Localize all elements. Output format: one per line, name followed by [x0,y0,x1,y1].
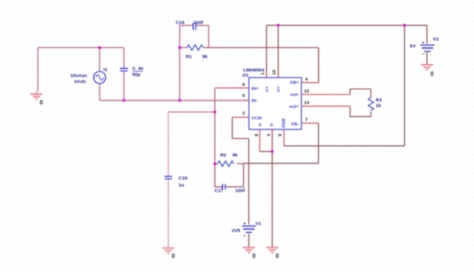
junction R1 left top [178,46,181,49]
op-amp U1 LMH6554 [242,67,309,136]
svg-text:IN+: IN+ [251,86,259,91]
svg-text:out-: out- [290,92,299,97]
junction source top [98,46,101,49]
voltage source V2 5V [410,37,439,54]
voltage source V1 2V5 [232,221,262,236]
ground 0 below V1 [243,248,256,260]
wire VCM stair [232,117,249,138]
wire source top lead [99,48,101,72]
svg-text:V1: V1 [255,221,261,227]
junction R2 left [213,162,216,165]
wire R1 right to FB+ drop [203,47,318,49]
wire pin2 VCM [232,116,249,118]
svg-text:7: 7 [305,117,308,123]
wire input rail to IN- [100,99,249,101]
svg-text:9: 9 [278,133,284,136]
wire R3 bottom bracket [350,106,371,116]
svg-text:V2: V2 [433,37,439,43]
svg-text:V+: V+ [265,86,270,92]
wire pin1 supply vertical [266,25,268,77]
junction R1 rail [178,99,181,102]
ground 0 left [30,92,43,107]
capacitor C_IN 50p [120,66,144,78]
junction C_IN bottom [122,99,125,102]
pin 5 stub [244,99,249,101]
svg-text:VCM: VCM [251,115,261,120]
svg-text:5: 5 [242,93,245,99]
wire left ground branch vertical [37,48,39,92]
svg-text:V-: V- [269,122,274,127]
capacitor C16 100f [176,20,209,48]
capacitor C17 100f [214,164,245,194]
svg-text:FB-: FB- [291,121,299,126]
wire pin4 FB+ [301,82,318,84]
svg-text:8: 8 [254,133,260,136]
wire pin7 FB- [301,122,318,124]
resistor R1 9k [180,45,208,60]
wire source bottom lead [99,84,101,101]
svg-text:10uAac: 10uAac [70,73,87,79]
ground 0 below pin3 [266,248,279,261]
svg-text:100f: 100f [193,20,203,26]
wire C19 top lead [167,112,169,175]
svg-text:R1: R1 [186,54,192,60]
svg-text:C16: C16 [176,20,185,26]
junction C19 branch [213,111,216,114]
svg-text:1u: 1u [179,182,185,188]
svg-text:R2: R2 [220,153,226,159]
svg-text:1k: 1k [376,103,382,109]
wire R2 right to FB- loop [244,162,319,164]
junction pin10 rail [277,24,280,27]
svg-text:12: 12 [304,89,310,95]
wire V2 top lead [426,25,428,44]
svg-text:100f: 100f [235,188,245,194]
junction pin8 pin3 [271,150,274,153]
svg-text:U1: U1 [242,73,248,79]
wire C19 branch horizontal [168,111,215,113]
current source I1 [70,67,108,85]
wire pin3 ground vertical [271,129,273,246]
svg-text:C_IN: C_IN [132,66,143,72]
svg-text:I1: I1 [103,67,107,73]
wire V+ rail top [267,24,428,26]
svg-text:6: 6 [242,82,245,88]
svg-text:V-: V- [257,122,262,127]
wire pin6 IN+ [215,87,249,89]
svg-text:4: 4 [305,77,308,83]
svg-text:3: 3 [266,133,272,136]
svg-text:9k: 9k [232,153,238,159]
wire pin8 stub [259,129,261,151]
svg-text:13: 13 [304,100,310,106]
wire pin9 stub [283,129,285,146]
pin 1 stub [266,73,268,78]
resistor R3 1k [368,89,382,117]
pin 10 stub [277,73,279,78]
wire IN+ vertical to R2 [214,88,216,164]
wire R1 left vertical [179,48,181,101]
ground 0 below C19 [162,248,175,260]
wire V1 top vertical [248,139,250,225]
svg-text:1: 1 [260,72,266,75]
svg-text:2V5: 2V5 [232,228,241,234]
svg-text:5V: 5V [410,44,417,50]
svg-text:C17: C17 [214,188,223,194]
wire C_IN bottom lead [123,72,125,101]
svg-text:C19: C19 [179,175,188,181]
wire pin8 to pin3 link [260,151,273,153]
svg-text:50p: 50p [132,72,140,78]
svg-text:IN-: IN- [251,98,258,103]
wire V1 bottom lead [248,234,250,247]
svg-text:V+: V+ [276,86,281,92]
wire pin12 out- [301,94,350,96]
wire C_IN top lead [123,48,125,68]
wire right supply vertical [404,25,406,146]
svg-text:10: 10 [272,69,278,75]
svg-text:9k: 9k [202,54,208,60]
wire C19 bottom lead [167,180,169,247]
wire pin10 supply vertical [277,25,279,77]
wire pin13 out+ [301,105,350,107]
svg-text:ENB: ENB [281,118,286,127]
wire R3 top bracket [350,89,371,95]
svg-text:R3: R3 [376,97,382,103]
svg-text:FB+: FB+ [290,80,299,85]
capacitor C19 1u [165,175,188,188]
pin 3 stub [271,129,273,135]
wire FB- loop vertical [318,123,320,163]
resistor R2 9k [215,153,244,167]
wire FB+ drop vertical [318,48,320,83]
ground 0 below V2 [421,65,434,78]
junction right rail [403,24,406,27]
wire top-left horizontal [38,47,124,49]
svg-text:2: 2 [242,111,245,117]
svg-text:0Adc: 0Adc [74,79,86,85]
wire V2 bottom lead [426,53,428,65]
svg-text:out+: out+ [289,104,299,109]
wire pin9 horizontal [284,145,405,147]
